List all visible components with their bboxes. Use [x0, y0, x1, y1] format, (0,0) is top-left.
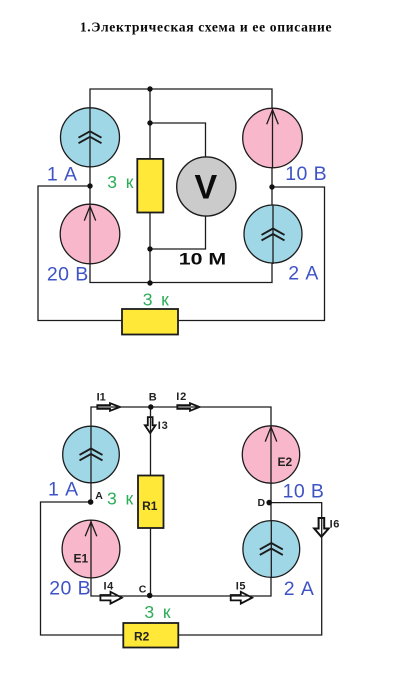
wire bottom rail right part (lower circuit)	[178, 503, 321, 635]
svg-text:3 к: 3 к	[144, 602, 172, 622]
svg-text:20 В: 20 В	[49, 578, 91, 600]
wire through E1	[90, 520, 92, 578]
current source 2 A (bottom right, blue)	[244, 205, 302, 263]
svg-text:1.Электрическая схема и ее опи: 1.Электрическая схема и ее описание	[80, 20, 332, 35]
wire left branch lower	[90, 186, 150, 283]
svg-text:1 А: 1 А	[48, 479, 78, 501]
svg-text:I4: I4	[104, 580, 115, 592]
wire bottom rail right part	[178, 187, 325, 321]
wire through E2	[270, 426, 272, 484]
node B	[148, 404, 153, 409]
svg-text:2 А: 2 А	[284, 578, 314, 600]
wire right branch lower	[150, 187, 272, 283]
current source 2 A (lower right, blue)	[243, 521, 300, 578]
resistor 3k vertical (top circuit)	[137, 159, 163, 213]
node D	[266, 500, 272, 506]
wire top rail (lower circuit)	[91, 407, 271, 427]
wire voltmeter bottom tap	[150, 216, 206, 249]
EMF source E1 (lower left, pink)	[62, 520, 120, 578]
current arrow I5	[231, 592, 253, 604]
node voltmeter top tap	[147, 120, 152, 125]
chevron symbol of 1 A source	[79, 131, 102, 143]
svg-text:1 А: 1 А	[47, 163, 77, 185]
wire left branch lower (lower circuit)	[91, 483, 151, 597]
wire middle branch R1 (lower circuit)	[150, 407, 152, 596]
svg-text:10 В: 10 В	[285, 163, 327, 185]
svg-text:3 к: 3 к	[107, 488, 135, 508]
arrowhead of 20 V source	[84, 206, 95, 220]
wire through 10 V source	[272, 108, 274, 168]
arrowhead of 10 V source	[267, 110, 279, 124]
svg-text:E2: E2	[278, 455, 293, 469]
arrowhead of E2	[265, 427, 277, 442]
svg-text:C: C	[139, 584, 147, 596]
wire through 20 V source	[89, 204, 91, 264]
svg-text:3 к: 3 к	[143, 289, 171, 309]
current arrow I3	[145, 417, 156, 433]
current arrow I4	[100, 592, 122, 604]
EMF source 10 V (top right, pink)	[243, 108, 303, 168]
wire through lower 2 A source	[270, 521, 272, 578]
wire top rail	[90, 89, 272, 187]
current arrow I1	[97, 403, 120, 411]
svg-text:E1: E1	[74, 551, 89, 565]
svg-text:I3: I3	[158, 420, 169, 432]
resistor R2 (yellow, horizontal)	[123, 623, 178, 648]
wire through lower 1 A source	[90, 426, 92, 483]
svg-text:A: A	[95, 490, 103, 502]
arrowhead of E1	[85, 522, 97, 536]
node voltmeter bottom tap	[147, 246, 152, 251]
svg-text:V: V	[194, 169, 217, 207]
svg-text:I6: I6	[330, 518, 340, 530]
node at top rail / middle branch	[147, 86, 152, 91]
wire middle branch	[149, 89, 151, 283]
wire through 2 A source	[272, 205, 274, 264]
wire left outer loop (lower circuit)	[41, 502, 124, 635]
current source 1 A (lower left, blue)	[63, 426, 120, 483]
svg-text:10 М: 10 М	[179, 251, 226, 269]
wire voltmeter top tap	[150, 123, 206, 157]
node right branch / outer wire	[269, 184, 274, 189]
EMF source 20 V (bottom left, pink)	[60, 204, 120, 264]
wire right branch lower (lower circuit)	[151, 484, 272, 597]
chevron symbol of lower 1 A source	[80, 449, 103, 461]
node left branch / outer wire	[87, 183, 92, 188]
svg-text:B: B	[149, 391, 157, 403]
svg-text:2 А: 2 А	[288, 263, 318, 285]
EMF source E2 (upper right, pink)	[242, 426, 299, 483]
svg-text:I5: I5	[236, 580, 246, 592]
svg-text:20 В: 20 В	[47, 263, 89, 285]
chevron symbol of lower 2 A source	[260, 543, 283, 555]
resistor R1 (yellow, vertical)	[138, 476, 164, 529]
svg-text:D: D	[258, 497, 266, 509]
node A	[88, 499, 94, 505]
current arrow I6	[314, 518, 328, 537]
svg-text:3 к: 3 к	[107, 172, 135, 192]
chevron symbol of 2 A source	[262, 229, 285, 241]
voltmeter V	[177, 157, 236, 216]
wire left outer loop	[38, 186, 122, 321]
node C	[147, 593, 153, 599]
wire through 1 A source	[89, 108, 91, 167]
resistor 3k horizontal (top circuit bottom)	[122, 309, 178, 335]
node middle / bottom inner wire	[147, 280, 152, 285]
svg-text:I2: I2	[176, 391, 187, 403]
svg-text:I1: I1	[97, 392, 106, 404]
current source 1 A (top left, blue)	[61, 108, 120, 167]
svg-text:R1: R1	[142, 499, 158, 513]
current arrow I2	[177, 403, 199, 411]
svg-text:10 В: 10 В	[283, 481, 325, 503]
svg-text:R2: R2	[134, 630, 150, 644]
